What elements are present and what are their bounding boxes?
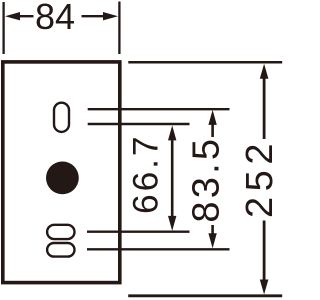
top slot hole <box>54 103 69 132</box>
mounting plate outline <box>3 62 120 283</box>
dim 252 bottom extension line <box>128 294 282 297</box>
dim 252 bottom arrow <box>263 221 266 282</box>
extension line B (slot bottom arc center) <box>88 123 190 125</box>
extension line C (middle slot center) <box>87 230 190 232</box>
dim 83.5 top arrow <box>208 110 216 125</box>
dim 84 left extension line <box>2 2 4 54</box>
dim 84 right extension line <box>118 2 120 55</box>
extension line A (slot top arc center) <box>88 108 230 110</box>
bottom slot hole <box>47 243 74 257</box>
dim 83.5 bottom arrow <box>211 225 214 235</box>
svg-text:84: 84 <box>35 0 75 37</box>
svg-text:252: 252 <box>239 138 281 218</box>
extension line D (bottom slot center) <box>87 248 230 250</box>
dim 252 top arrow <box>260 64 269 79</box>
dim 84 left arrow <box>5 12 20 20</box>
dim 252 top extension line <box>128 61 282 64</box>
dim 84 right arrow <box>103 12 118 20</box>
svg-text:83.5: 83.5 <box>185 136 227 223</box>
dim 66.7 line <box>171 138 174 219</box>
svg-text:66.7: 66.7 <box>125 134 165 214</box>
middle slot hole <box>47 225 74 239</box>
wiring hole (filled circle) <box>46 162 79 195</box>
